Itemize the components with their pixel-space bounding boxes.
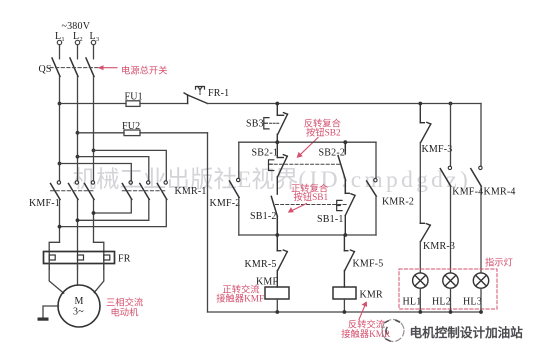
node L1/FU1 <box>58 102 62 106</box>
thermal contact FR-1 <box>184 87 207 104</box>
node rail KMR <box>343 310 347 314</box>
contactor contact KMF-5 <box>344 235 354 287</box>
pushbutton SB2-1 <box>269 142 288 194</box>
svg-text:HL2: HL2 <box>432 297 451 308</box>
node L2/FU2 <box>76 131 80 135</box>
terminal L1 <box>57 40 61 44</box>
wire box left edge lower <box>238 198 240 236</box>
contactor contact KMR-4 <box>471 166 482 186</box>
svg-text:接触器KMF: 接触器KMF <box>216 293 264 305</box>
SB2 linkage dashed <box>274 163 340 165</box>
wire FR to motor mid <box>77 264 79 286</box>
wire KMF-4 upper <box>450 104 452 167</box>
svg-text:L1: L1 <box>55 31 65 43</box>
svg-text:KMF-2: KMF-2 <box>210 198 241 209</box>
node rail KMF <box>275 310 279 314</box>
node box top SB2-1 <box>275 140 279 144</box>
node top rail SB3 <box>275 102 279 106</box>
node W join <box>92 211 96 215</box>
node feed W <box>92 149 96 153</box>
contactor KMR-1 pole3 <box>157 181 167 200</box>
wire KMR-1 pole1 out to W <box>94 200 132 214</box>
svg-text:HL3: HL3 <box>463 297 482 308</box>
SB1 linkage dashed <box>276 204 348 206</box>
wire FR to motor left <box>49 264 64 294</box>
wire bottom rail <box>208 311 482 313</box>
svg-text:KMF-3: KMF-3 <box>422 144 453 155</box>
FR heater element 3 <box>104 252 110 270</box>
wire box top rail <box>239 141 376 143</box>
QS linkage dashed <box>50 67 98 69</box>
svg-text:电机控制设计加油站: 电机控制设计加油站 <box>410 325 524 340</box>
svg-text:接触器KMR: 接触器KMR <box>341 328 391 340</box>
annotation arrow KMR <box>359 301 367 319</box>
wire jog into FR left <box>49 242 59 251</box>
svg-text:HL1: HL1 <box>403 297 422 308</box>
logo icon <box>382 320 404 342</box>
wire FU2 to drop <box>140 132 208 134</box>
annotation arrow SB2 <box>297 138 318 159</box>
wire KMR coil to rail <box>343 299 345 312</box>
wire L3 lead <box>93 45 95 59</box>
node box top SB2-2 <box>343 140 347 144</box>
svg-text:反转交流: 反转交流 <box>348 319 385 331</box>
contactor KMF-1 pole1 <box>51 181 61 200</box>
svg-text:KMF-1: KMF-1 <box>29 198 60 209</box>
svg-text:FU1: FU1 <box>125 92 143 103</box>
wire jog into FR right <box>94 242 104 251</box>
contactor contact KMR-2 <box>367 179 377 197</box>
wire KMF-3 to KMR-3 <box>419 143 421 224</box>
wire box right edge lower <box>375 196 377 235</box>
annotation arrow 电源总开关 <box>98 65 118 70</box>
FR heater element 2 <box>78 252 84 270</box>
pushbutton SB1-1 <box>337 193 355 235</box>
motor M <box>58 285 100 327</box>
wire feed U to KMR-1 pole1 <box>60 164 132 181</box>
svg-text:FR-1: FR-1 <box>208 88 229 99</box>
svg-text:KMF-4: KMF-4 <box>452 187 483 198</box>
switch QS pole3 blade <box>86 58 94 77</box>
svg-text:三相交流: 三相交流 <box>106 297 143 309</box>
node feed V <box>76 155 80 159</box>
contactor contact KMF-4 <box>440 166 451 186</box>
svg-text:FR: FR <box>118 254 131 265</box>
wire lamp HL2 to rail <box>450 288 452 312</box>
svg-text:电源总开关: 电源总开关 <box>121 65 168 77</box>
node V join <box>76 218 80 222</box>
wire KMR-3 to lamp HL1 <box>419 242 421 273</box>
pushbutton SB1-2 <box>271 196 277 235</box>
svg-text:SB3: SB3 <box>246 119 264 130</box>
contactor KMR-1 pole1 <box>122 181 132 200</box>
node top rail KMF-4 <box>449 102 453 106</box>
coil KMF <box>265 287 289 299</box>
svg-text:KMR-4: KMR-4 <box>484 187 516 198</box>
svg-text:KMR: KMR <box>360 290 384 301</box>
node U join <box>58 225 62 229</box>
contactor contact KMR-3 <box>420 223 430 241</box>
wire L3 vertical <box>93 77 95 181</box>
svg-text:按钮SB1: 按钮SB1 <box>294 191 329 203</box>
terminal L3 <box>91 40 95 44</box>
svg-text:SB2-1: SB2-1 <box>252 148 279 159</box>
node top rail KMF-3 <box>418 102 422 106</box>
fuse FU1 <box>126 101 140 107</box>
wire lamp HL1 to rail <box>419 288 421 312</box>
svg-text:KMF-5: KMF-5 <box>353 259 384 270</box>
wire box right edge upper <box>375 142 377 178</box>
wire box bottom rail <box>239 234 376 236</box>
indicator box dashed red <box>399 269 497 309</box>
svg-text:按钮SB2: 按钮SB2 <box>306 127 341 139</box>
wire L1 vertical <box>59 77 61 181</box>
node box bottom right <box>343 233 347 237</box>
contactor contact KMF-2 <box>230 178 240 197</box>
wire KMF-4 to lamp HL2 <box>450 186 452 273</box>
svg-text:SB1-2: SB1-2 <box>250 211 277 222</box>
svg-text:M: M <box>75 296 84 307</box>
contactor contact KMR-5 <box>277 235 287 287</box>
wire KMR-4 to lamp HL3 <box>480 186 482 273</box>
pushbutton SB3 <box>264 104 288 143</box>
wire KMF-1 outputs <box>59 200 61 243</box>
pushbutton SB2-2 <box>338 142 346 193</box>
lamp HL2 <box>443 273 458 288</box>
wire KMR-1 pole3 out to U <box>60 200 167 227</box>
svg-text:KMR-1: KMR-1 <box>175 186 207 197</box>
ground <box>38 318 49 321</box>
contactor KMF-1 pole3 <box>85 181 95 200</box>
wire top rail corner KMR-4 <box>480 104 482 167</box>
wire motor to ground <box>43 306 59 318</box>
svg-text:L2: L2 <box>73 31 83 43</box>
node box bottom left <box>275 233 279 237</box>
node feed U <box>58 162 62 166</box>
coil KMR <box>333 287 356 299</box>
wire feed V to KMR-1 pole2 <box>78 157 149 181</box>
switch QS pole1 blade <box>52 58 60 77</box>
annotation arrow SB1 <box>288 204 307 213</box>
switch QS pole2 blade <box>70 58 78 77</box>
node rail HL3 <box>479 310 483 314</box>
wire box left edge upper <box>238 142 240 178</box>
svg-text:SB2-2: SB2-2 <box>319 148 346 159</box>
wire to FU2 <box>78 132 125 134</box>
wire L1 lead <box>59 45 61 59</box>
svg-text:KMR-2: KMR-2 <box>382 197 414 208</box>
svg-text:QS: QS <box>39 64 52 75</box>
wire to FU1 <box>60 103 127 105</box>
node rail HL2 <box>449 310 453 314</box>
svg-text:指示灯: 指示灯 <box>485 257 513 269</box>
wire L2 vertical <box>77 77 79 181</box>
contactor KMR-1 pole2 <box>140 181 150 200</box>
contactor KMF-1 pole2 <box>69 181 79 200</box>
wire FU1 to FR-1 <box>140 103 188 105</box>
fuse FU2 <box>124 130 140 136</box>
wire top rail <box>208 103 482 105</box>
KMF-1 linkage dashed <box>51 190 96 192</box>
svg-text:3~: 3~ <box>73 307 84 318</box>
svg-text:电动机: 电动机 <box>111 307 140 319</box>
svg-text:L3: L3 <box>90 31 100 43</box>
contactor contact KMF-3 <box>420 104 431 143</box>
wire KMF coil to rail <box>276 299 278 312</box>
svg-text:FU2: FU2 <box>122 121 140 132</box>
svg-text:KMR-5: KMR-5 <box>245 259 277 270</box>
svg-text:SB1-1: SB1-1 <box>317 214 344 225</box>
terminal L2 <box>75 40 79 44</box>
lamp HL1 <box>413 273 428 288</box>
wire L2 lead <box>77 45 79 59</box>
node rail HL1 <box>418 310 422 314</box>
lamp HL3 <box>473 273 488 288</box>
wire feed W to KMR-1 pole3 <box>94 150 167 180</box>
wire control left drop <box>207 133 209 312</box>
KMR-1 linkage dashed <box>122 190 167 192</box>
wire FR to motor right <box>94 264 104 293</box>
FR heater element 1 <box>49 252 55 270</box>
thermal relay FR box <box>44 252 115 264</box>
wire lamp HL3 to rail <box>480 288 482 312</box>
wire KMR-1 pole2 out to V <box>78 200 149 221</box>
